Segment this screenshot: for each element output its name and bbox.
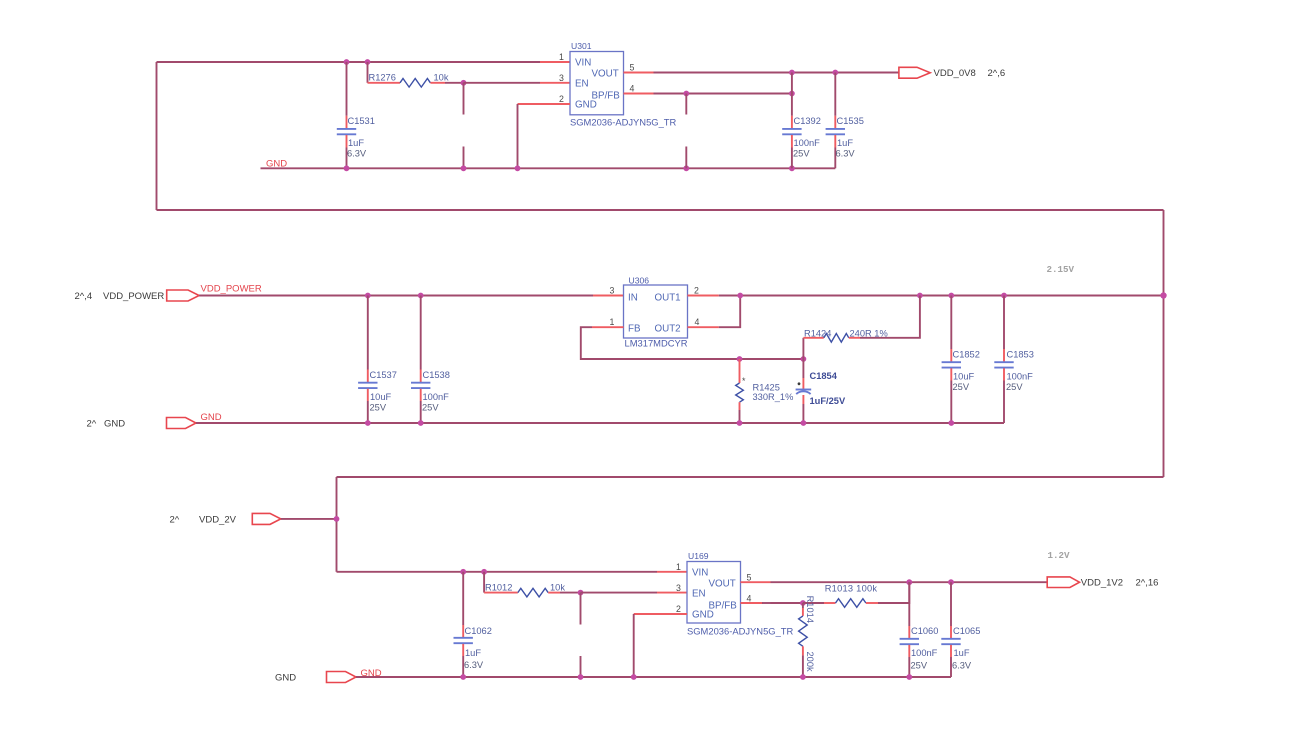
node junction FB stub top [683, 91, 689, 97]
capacitor C1537 [358, 296, 397, 424]
svg-text:SGM2036-ADJYN5G_TR: SGM2036-ADJYN5G_TR [687, 625, 794, 636]
svg-text:C1065: C1065 [953, 626, 980, 636]
IC U301 [559, 41, 677, 128]
capacitor C1852 [942, 296, 980, 424]
node junction C1060 bottom [906, 674, 912, 680]
port GND bottom [327, 672, 357, 683]
svg-text:EN: EN [692, 589, 706, 600]
svg-text:C1538: C1538 [423, 370, 450, 380]
svg-text:C1531: C1531 [348, 116, 375, 126]
svg-text:3: 3 [559, 73, 564, 83]
ground rail bottom section [356, 676, 951, 678]
node junction FB stub bottom [683, 165, 689, 171]
wire stub below FB node (lower) [685, 147, 687, 169]
svg-text:GND: GND [201, 412, 222, 423]
wire pin2 to ground rail [633, 614, 635, 677]
resistor R1012 [484, 572, 580, 597]
svg-text:FB: FB [628, 324, 641, 335]
svg-text:6.3V: 6.3V [347, 149, 367, 159]
svg-text:10uF: 10uF [953, 372, 975, 382]
svg-text:6.3V: 6.3V [464, 660, 484, 670]
node junction pin2 bottom [631, 674, 637, 680]
wire VIN rail bottom section [337, 571, 658, 573]
pin 4 stub U169 (BP/FB) [741, 602, 763, 604]
node junction C1392 top [789, 70, 795, 76]
capacitor C1854 (polarized) [796, 359, 846, 423]
node junction C1062 top [460, 569, 466, 575]
svg-text:VDD_POWER: VDD_POWER [103, 291, 164, 302]
svg-text:2: 2 [559, 94, 564, 104]
svg-text:5: 5 [630, 63, 635, 73]
wire EN net [581, 592, 658, 594]
svg-text:IN: IN [628, 293, 638, 304]
pin 4 stub U301 (BP/FB) [624, 93, 654, 95]
svg-text:U306: U306 [629, 276, 650, 286]
svg-text:2^: 2^ [87, 419, 97, 430]
capacitor C1062 [454, 572, 492, 677]
svg-text:*: * [742, 376, 746, 386]
svg-text:1: 1 [676, 562, 681, 572]
node junction C1537 top [365, 293, 371, 299]
svg-text:4: 4 [747, 594, 752, 604]
capacitor C1392 [782, 73, 821, 169]
svg-text:2.15V: 2.15V [1047, 264, 1075, 275]
svg-text:C1060: C1060 [911, 626, 938, 636]
wire EN net [464, 82, 541, 84]
node junction R1014 top [800, 600, 806, 606]
svg-text:R1425: R1425 [753, 383, 780, 393]
svg-text:C1853: C1853 [1007, 350, 1034, 360]
svg-text:2^,6: 2^,6 [988, 68, 1006, 79]
pin 4 stub U306 (OUT2) [688, 326, 719, 328]
resistor R1013 [803, 582, 909, 607]
pin 5 stub U169 (VOUT) [741, 581, 771, 583]
svg-text:GND: GND [104, 419, 125, 430]
IC U306 [610, 276, 700, 349]
svg-text:R1276: R1276 [369, 73, 396, 83]
svg-text:OUT2: OUT2 [655, 324, 681, 335]
pin 3 stub U301 [540, 82, 570, 84]
capacitor C1535 [826, 73, 864, 169]
svg-text:R1424: R1424 [804, 329, 831, 339]
resistor R1425 [736, 359, 794, 423]
svg-text:VOUT: VOUT [592, 69, 619, 80]
node junction C1852 bottom [948, 420, 954, 426]
svg-text:25V: 25V [1006, 382, 1023, 392]
wire top rail of bottom section [337, 476, 1164, 478]
svg-text:5: 5 [747, 573, 752, 583]
svg-text:2^,16: 2^,16 [1136, 577, 1159, 588]
svg-text:U301: U301 [571, 41, 592, 51]
node junction C1060 top [906, 579, 912, 585]
wire stub below FB node (upper) [685, 94, 687, 115]
resistor R1424 [803, 296, 920, 360]
svg-text:1: 1 [559, 52, 564, 62]
wire stub below EN node (upper) [580, 593, 582, 625]
wire OUT2 tie to OUT1 [719, 296, 740, 328]
svg-text:C1062: C1062 [465, 626, 492, 636]
capacitor C1065 [941, 582, 980, 677]
svg-text:240R 1%: 240R 1% [850, 329, 888, 339]
wire stub below EN node (lower) [463, 147, 465, 169]
svg-text:R1012: R1012 [485, 583, 512, 593]
svg-text:GND: GND [692, 610, 714, 621]
svg-text:25V: 25V [953, 382, 970, 392]
pin 1 stub U301 [540, 61, 570, 63]
svg-text:1uF/25V: 1uF/25V [810, 396, 846, 406]
port VDD_POWER [167, 290, 199, 301]
svg-text:GND: GND [275, 673, 296, 684]
node junction EN stub bottom [578, 674, 584, 680]
svg-text:GND: GND [575, 100, 597, 111]
wire BP/FB net [654, 93, 792, 95]
svg-text:R1013 100k: R1013 100k [825, 584, 878, 594]
svg-text:1: 1 [610, 317, 615, 327]
wire bottom of top loop [157, 209, 1164, 211]
svg-text:VOUT: VOUT [709, 579, 736, 590]
svg-text:1.2V: 1.2V [1048, 550, 1071, 561]
svg-text:OUT1: OUT1 [655, 293, 681, 304]
svg-text:25V: 25V [370, 403, 387, 413]
wire stub below EN node (lower) [580, 656, 582, 677]
pin 2 stub U301 (GND) [518, 103, 571, 105]
node junction C1535 top [832, 70, 838, 76]
node junction C1853 top [1001, 293, 1007, 299]
wire VIN top rail [157, 61, 541, 63]
svg-text:100nF: 100nF [794, 138, 821, 148]
pin 2 stub U169 (GND) [634, 613, 687, 615]
pin 1 stub U306 (FB) [592, 326, 624, 328]
svg-text:4: 4 [630, 84, 635, 94]
svg-text:LM317MDCYR: LM317MDCYR [625, 338, 688, 349]
capacitor C1060 [900, 582, 939, 677]
svg-text:C1852: C1852 [953, 350, 980, 360]
node junction EN net [461, 80, 467, 86]
svg-text:C1535: C1535 [837, 116, 864, 126]
wire BP/FB net [771, 602, 803, 604]
svg-text:U169: U169 [688, 551, 709, 561]
wire VDD_POWER rail [199, 295, 593, 297]
svg-text:10uF: 10uF [370, 392, 392, 402]
node junction output to right vertical [1160, 292, 1166, 298]
capacitor C1531 [337, 62, 375, 168]
svg-text:10k: 10k [550, 583, 565, 593]
svg-text:4: 4 [695, 317, 700, 327]
svg-text:C1392: C1392 [794, 116, 821, 126]
svg-text:R1014: R1014 [805, 596, 815, 623]
svg-text:EN: EN [575, 79, 589, 90]
port GND [167, 418, 197, 429]
node junction OUT tie [737, 293, 743, 299]
node junction VDD_2V [334, 516, 340, 522]
node junction C1537 bottom [365, 420, 371, 426]
svg-text:3: 3 [676, 583, 681, 593]
node junction EN net [578, 590, 584, 596]
svg-text:25V: 25V [793, 149, 810, 159]
port VDD_0V8 [899, 67, 930, 78]
svg-text:200k: 200k [805, 652, 815, 673]
port VDD_1V2 [1047, 577, 1079, 588]
svg-text:C1854: C1854 [810, 371, 838, 381]
ground rail top section [261, 167, 836, 169]
node junction C1538 bottom [418, 420, 424, 426]
svg-text:GND: GND [266, 159, 287, 170]
svg-text:100nF: 100nF [423, 392, 450, 402]
svg-text:25V: 25V [911, 661, 928, 671]
node junction R1425 top [737, 356, 743, 362]
wire VOUT net [654, 72, 899, 74]
pin 3 stub U306 (IN) [593, 295, 624, 297]
node junction C1065 top [948, 579, 954, 585]
wire FB net [581, 327, 804, 359]
svg-text:SGM2036-ADJYN5G_TR: SGM2036-ADJYN5G_TR [570, 117, 677, 128]
wire left vertical of bottom section [336, 477, 338, 572]
pin 5 stub U301 (VOUT) [624, 72, 654, 74]
wire stub below EN node (upper) [463, 83, 465, 115]
svg-text:VDD_POWER: VDD_POWER [201, 284, 262, 295]
wire left side of top loop [156, 62, 158, 210]
svg-text:VDD_1V2: VDD_1V2 [1081, 577, 1123, 588]
wire VOUT rail [771, 581, 1047, 583]
svg-text:VIN: VIN [575, 58, 591, 69]
node junction C1392 bottom [789, 165, 795, 171]
svg-text:100nF: 100nF [1007, 372, 1034, 382]
svg-text:25V: 25V [422, 403, 439, 413]
node junction R1425 bottom [737, 420, 743, 426]
node junction R1424 top [917, 293, 923, 299]
svg-text:6.3V: 6.3V [836, 149, 856, 159]
node junction C1531 top [344, 59, 350, 65]
pin 3 stub U169 [657, 592, 687, 594]
node junction FB to C1392 [789, 91, 795, 97]
node junction C1854 top [801, 356, 807, 362]
svg-text:2^,4: 2^,4 [75, 291, 93, 302]
node junction R1276 top [365, 59, 371, 65]
wire pin2 to ground rail [517, 104, 519, 168]
node junction C1062 bottom [460, 674, 466, 680]
capacitor C1538 [411, 296, 450, 424]
svg-text:VIN: VIN [692, 568, 708, 579]
svg-text:VDD_0V8: VDD_0V8 [934, 68, 976, 79]
resistor R1014 [799, 596, 815, 677]
svg-text:2: 2 [694, 286, 699, 296]
pin 2 stub U306 (OUT1) [688, 295, 719, 297]
svg-text:330R_1%: 330R_1% [753, 392, 794, 402]
svg-text:1uF: 1uF [954, 648, 970, 658]
node junction R1012 top [481, 569, 487, 575]
svg-text:1uF: 1uF [348, 138, 364, 148]
svg-text:100nF: 100nF [911, 648, 938, 658]
svg-text:2^: 2^ [170, 515, 180, 526]
wire OUT1 rail [719, 295, 1164, 297]
svg-text:C1537: C1537 [370, 370, 397, 380]
wire VDD_2V to vertical [281, 518, 337, 520]
node junction C1852 top [948, 293, 954, 299]
node junction R1014 bottom [800, 674, 806, 680]
port VDD_2V [252, 513, 280, 524]
capacitor C1853 [994, 296, 1034, 424]
node junction C1854 bottom [801, 420, 807, 426]
node junction C1538 top [418, 293, 424, 299]
svg-text:10k: 10k [434, 73, 449, 83]
wire right vertical down to bottom section [1163, 210, 1165, 477]
svg-text:6.3V: 6.3V [952, 661, 972, 671]
svg-text:1uF: 1uF [837, 138, 853, 148]
IC U169 [676, 551, 794, 636]
resistor R1276 [368, 62, 464, 87]
node junction EN stub bottom [461, 165, 467, 171]
svg-text:1uF: 1uF [465, 648, 481, 658]
node junction pin2 bottom [515, 165, 521, 171]
svg-text:VDD_2V: VDD_2V [199, 515, 237, 526]
node junction C1531 bottom [344, 165, 350, 171]
svg-text:3: 3 [610, 286, 615, 296]
pin 1 stub U169 [657, 571, 687, 573]
ground rail middle section [196, 422, 1004, 424]
svg-text:2: 2 [676, 604, 681, 614]
